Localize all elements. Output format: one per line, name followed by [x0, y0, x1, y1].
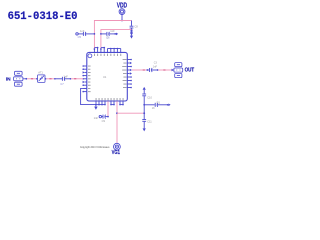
- resistor R1 branch: [144, 103, 167, 107]
- capacitor C11 (vertical lower): [142, 113, 146, 128]
- terminal diamond left pin 3: [83, 71, 85, 73]
- connector J1 (IN port, 3 stacked boxes): [14, 71, 26, 86]
- terminal arrow right pin 5: [130, 72, 132, 74]
- svg-text:1nF: 1nF: [63, 74, 68, 78]
- top pin stubs 1,3: [94, 49, 101, 53]
- svg-text:C3: C3: [154, 61, 158, 64]
- wire top ground bus pins 5-9: [108, 49, 121, 53]
- svg-text:C8: C8: [134, 25, 138, 29]
- junction dot C8 node: [131, 29, 133, 31]
- capacitor C9 (bottom, horizontal): [99, 115, 108, 119]
- pin numbers bottom row: [96, 98, 124, 100]
- junction dot C3 right: [157, 69, 159, 71]
- arrow into OUT port: [172, 69, 175, 72]
- capacitor C7 (series, IN path): [56, 77, 71, 81]
- svg-text:VG1: VG1: [112, 150, 121, 155]
- power port VG1 symbol: [114, 143, 121, 150]
- left pin end dots: [82, 65, 84, 92]
- svg-text:U1: U1: [103, 75, 107, 79]
- capacitor C8 (VDD decoupling, vertical at x=131.5): [130, 21, 134, 36]
- terminal arrow C6 right: [114, 33, 116, 35]
- svg-text:C5: C5: [78, 35, 82, 39]
- ground arrow bottom-left: [95, 105, 97, 107]
- junction dot att right: [45, 78, 47, 80]
- svg-text:1nF: 1nF: [80, 29, 85, 33]
- ground arrow under C8: [130, 36, 133, 39]
- terminal arrow OUT pin: [130, 69, 132, 71]
- left pin stubs: [83, 66, 87, 92]
- wire fleck OUT span1: [143, 69, 145, 71]
- svg-text:VDD: VDD: [117, 1, 127, 10]
- capacitor C5 (top-left horizontal): [76, 32, 95, 36]
- wire bottom ground bus: [96, 104, 123, 106]
- wire pink VG1 branch right: [117, 112, 144, 114]
- net arrow up (gate bias node): [143, 87, 146, 90]
- svg-text:OUT: OUT: [185, 68, 195, 74]
- capacitor C6 (top-right horizontal): [101, 32, 115, 36]
- pin numbers right column: [122, 59, 126, 88]
- wire C7 to chip (pink): [71, 78, 83, 80]
- wire IN to attenuator (pink): [27, 78, 36, 80]
- wire OUT pin to C3 (pink): [132, 69, 147, 71]
- pin numbers left column: [88, 66, 91, 93]
- svg-text:AT1: AT1: [38, 71, 43, 75]
- svg-text:1K: 1K: [152, 107, 155, 110]
- capacitor C3 (series, OUT path): [148, 68, 157, 72]
- wire fleck IN span3: [74, 78, 76, 80]
- junction dot att left: [36, 78, 38, 80]
- junction dot C3 left: [146, 69, 148, 71]
- wire pin3-pin4 bridge: [101, 48, 104, 53]
- svg-text:C9: C9: [102, 119, 106, 123]
- wire pin1-pin2 bridge: [94, 48, 97, 53]
- svg-text:C7: C7: [60, 82, 64, 86]
- junction dot C6 left: [100, 33, 102, 35]
- wire fleck IN span2: [49, 78, 51, 80]
- connector J2 (OUT port, 3 stacked boxes): [174, 63, 183, 78]
- wire C3 to OUT port (pink): [158, 69, 171, 71]
- wire left pin 8 to ground (L shape): [81, 88, 96, 104]
- junction dot IN pin: [82, 78, 84, 80]
- wire pink VG1 net vertical: [116, 101, 118, 143]
- svg-text:IN: IN: [6, 76, 11, 82]
- wire fleck IN span1: [31, 78, 33, 80]
- junction dot pink joins: [143, 112, 145, 114]
- junction dot C7 right: [70, 78, 72, 80]
- ground arrow bottom-right: [143, 128, 146, 131]
- svg-text:1nF: 1nF: [94, 116, 99, 120]
- svg-text:Copyright 2013 X-Microwave: Copyright 2013 X-Microwave: [80, 146, 110, 149]
- svg-text:R1: R1: [157, 100, 161, 104]
- attenuator AT1 (box with diagonal): [38, 75, 46, 83]
- junction dot C7 left: [54, 78, 56, 80]
- wire pink drop pin to C9: [107, 101, 109, 116]
- op-amp U1 chip body QFP: [87, 52, 128, 101]
- power port VDD symbol: [119, 9, 125, 21]
- svg-text:1nF: 1nF: [153, 65, 158, 69]
- pin numbers top row: [94, 54, 121, 56]
- svg-text:C11: C11: [147, 120, 152, 124]
- wire att to C7 (pink): [46, 78, 54, 80]
- wire pin3 net (pink): [101, 30, 132, 49]
- capacitor C10 (vertical): [142, 90, 146, 114]
- svg-text:C10: C10: [147, 95, 152, 99]
- junction dot C5/pin1 net: [94, 33, 96, 35]
- bottom pin stubs: [96, 101, 123, 105]
- terminal arrow right pin 2: [130, 62, 132, 64]
- right pin stubs: [127, 60, 131, 88]
- svg-text:1nF: 1nF: [110, 29, 115, 33]
- junction dot VG1 net: [116, 112, 118, 114]
- junction dot R1 branch: [143, 104, 145, 106]
- right pin end dots: [130, 59, 132, 89]
- terminal diamond left pin 6: [83, 81, 85, 83]
- junction dot VDD-rail: [121, 20, 123, 22]
- wire fleck OUT span2: [163, 69, 165, 71]
- wire VDD rail (pink): [94, 21, 131, 49]
- junction dot IN port: [25, 78, 27, 80]
- pin-1 indicator circle: [88, 54, 92, 58]
- svg-text:651-0318-E0: 651-0318-E0: [8, 11, 78, 23]
